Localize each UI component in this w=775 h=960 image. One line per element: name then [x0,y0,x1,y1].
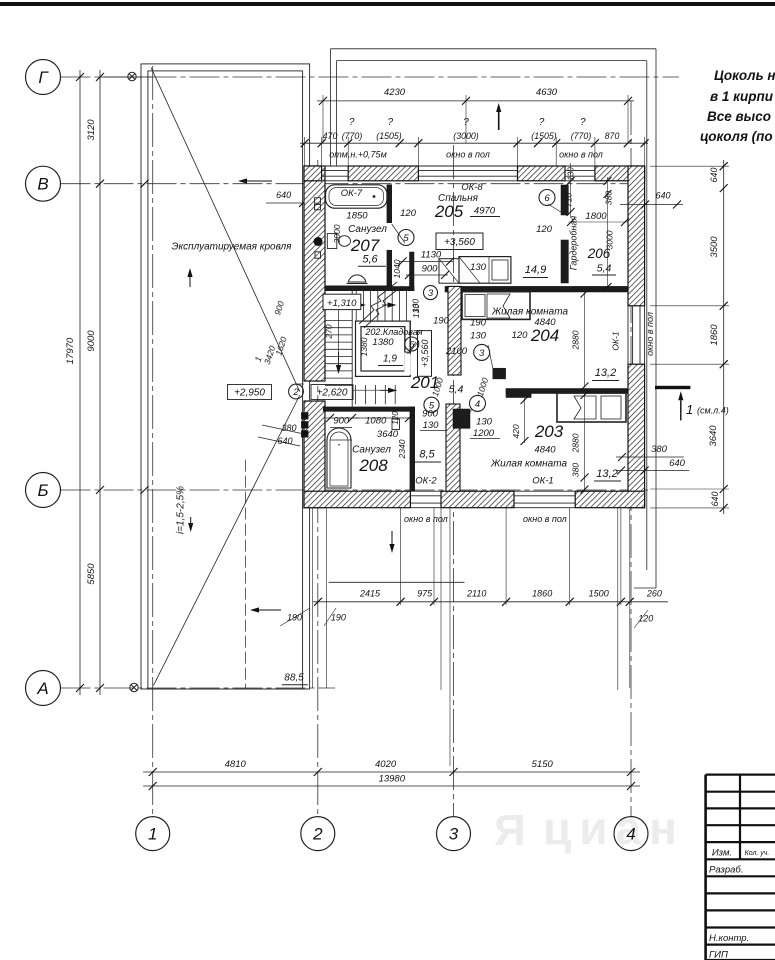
svg-text:окно в пол: окно в пол [559,150,603,160]
axis line Г horizontal [61,76,680,78]
top dim chain 2 [300,142,648,144]
svg-text:ОК-8: ОК-8 [461,182,483,193]
dim line 1800 [568,221,628,223]
window ОК-7 top right [565,165,595,167]
bottom dim chain below building [313,601,668,603]
axis line 1 vertical [152,66,154,816]
stairs top flight treads [355,287,357,321]
bed room 203 [557,393,626,422]
svg-text:отм.н.+0,75м: отм.н.+0,75м [329,150,386,160]
dim line 2880/380 room 203 [584,394,586,491]
svg-text:1380: 1380 [372,337,394,348]
arrow down below building [391,531,393,544]
axis circle Б [26,473,61,508]
dim line 2880 room 204 [584,293,586,388]
sheet border top [0,2,775,6]
exterior wall top seg3 [518,166,566,181]
svg-text:470: 470 [323,131,338,141]
svg-text:190: 190 [470,318,487,329]
svg-text:Я: Я [494,806,526,855]
svg-text:(770): (770) [571,131,592,141]
svg-text:710: 710 [564,193,574,207]
svg-text:420: 420 [511,424,521,438]
svg-text:Все высо: Все высо [707,109,771,124]
window top 770 [322,165,349,167]
right dim chain [723,160,725,514]
svg-text:17970: 17970 [65,337,76,364]
svg-text:2340: 2340 [397,439,407,459]
svg-text:Санузел: Санузел [352,445,391,456]
elevation +1,310 [323,294,361,309]
door circle 2 [289,384,304,399]
exterior wall right lower [628,364,645,508]
svg-text:4230: 4230 [384,87,406,98]
roof outline [331,48,657,50]
left dim line 17970 [79,70,81,695]
svg-text:4: 4 [475,399,480,410]
terrace ridge dashed line [244,460,246,689]
svg-text:5: 5 [403,233,409,244]
left dim line segments [99,70,101,695]
wall 206 left lower [561,240,568,283]
svg-text:640: 640 [276,190,291,200]
svg-text:Б: Б [37,481,48,500]
svg-text:ОК-2: ОК-2 [415,476,437,487]
axis line В horizontal [61,183,644,185]
svg-text:Жилая комната: Жилая комната [491,307,568,318]
wall 204/203 stub [506,389,531,398]
svg-text:окно в пол: окно в пол [404,514,448,524]
bottom dim chain axes [143,771,640,773]
section mark 1 [655,386,690,389]
washbasin room 207 [348,275,366,282]
svg-text:окно в пол: окно в пол [645,312,655,356]
door swing terrace [296,383,304,385]
svg-text:2: 2 [312,825,323,844]
svg-text:4810: 4810 [225,759,247,770]
svg-text:270: 270 [324,324,334,339]
door circle 5 room 201 [424,397,439,412]
stairs walk line left flight [338,305,340,360]
door circle 4 [470,395,486,411]
svg-text:Цоколь н: Цоколь н [714,68,775,83]
svg-text:380: 380 [571,463,581,477]
svg-text:+2,620: +2,620 [317,388,348,399]
svg-text:3: 3 [428,288,434,299]
arrow down terrace [190,517,192,523]
svg-text:14,9: 14,9 [525,264,546,276]
svg-text:207: 207 [350,236,380,255]
axis circle А [26,671,61,706]
svg-text:в 1 кирпи: в 1 кирпи [710,89,774,104]
svg-text:?: ? [580,117,586,128]
svg-text:2415: 2415 [359,589,381,599]
storage room 202 walls [356,321,411,376]
door swing 202 [410,341,419,352]
svg-text:1,9: 1,9 [383,354,397,365]
svg-text:ОК-7: ОК-7 [341,188,363,199]
svg-text:+3,560: +3,560 [420,340,430,368]
svg-text:3120: 3120 [86,119,97,141]
svg-text:Н.контр.: Н.контр. [709,933,749,944]
svg-text:ГИП: ГИП [709,950,728,960]
wall 206 left upper [561,185,568,215]
svg-text:А: А [36,679,48,698]
axis circle 4 [614,817,648,851]
svg-text:Изм.: Изм. [712,848,732,859]
exterior wall top seg1 [304,166,322,181]
anchor mark top-left [128,72,136,80]
svg-text:Жилая комната: Жилая комната [490,459,567,470]
arrow left below building [259,609,281,611]
svg-text:i=1,5-2,5%: i=1,5-2,5% [175,486,186,534]
svg-text:120: 120 [512,330,529,341]
svg-text:Гардеробная: Гардеробная [569,216,579,271]
door swing 204 [488,345,493,368]
svg-text:13980: 13980 [379,774,406,785]
wall 208 top [323,407,415,412]
elevation +2,620 [311,385,353,400]
wall stub door 203 [453,409,470,428]
exterior wall bottom seg1 [304,491,410,508]
closet room 205 [439,259,459,284]
svg-text:окно в пол: окно в пол [523,514,567,524]
door swing 203 [460,409,472,428]
svg-text:5850: 5850 [86,563,97,585]
svg-text:1: 1 [148,825,157,844]
arrow up terrace [189,277,191,287]
bathtub room 207 [326,185,387,208]
svg-text:900: 900 [422,409,439,420]
svg-text:1: 1 [686,402,693,417]
terrace diagonal 1 [151,67,300,391]
bed room 204 [462,292,530,320]
svg-text:9000: 9000 [86,330,97,352]
svg-text:190: 190 [331,613,346,623]
svg-text:(770): (770) [342,131,363,141]
elevation +3,560 room205 [436,233,483,250]
wall-mounted squares room 207 [315,198,321,204]
svg-text:Эксплуатируемая кровля: Эксплуатируемая кровля [172,242,293,253]
exterior wall top seg2 [348,166,418,181]
svg-text:(1505): (1505) [376,131,401,141]
axis line А horizontal [61,687,336,689]
door circle 3 stairs [424,286,438,300]
svg-text:3: 3 [479,348,485,359]
stairs lower flight treads [355,385,357,404]
anchor mark bottom-left [130,683,138,691]
dim line 206 vertical [607,177,609,289]
svg-text:?: ? [539,117,545,128]
svg-text:1850: 1850 [346,211,368,222]
axis line 4 vertical [630,101,632,816]
svg-text:(1505): (1505) [531,131,556,141]
door circle 6 storage [405,337,419,351]
svg-text:640: 640 [710,492,720,507]
bathtub room 208 [327,428,351,488]
svg-text:6: 6 [544,193,550,204]
svg-text:5,4: 5,4 [449,384,464,396]
door swing 206 [548,204,564,214]
svg-text:В: В [37,175,48,194]
svg-text:?: ? [388,117,394,128]
window ОК-1 bottom [514,490,575,492]
svg-text:130: 130 [470,331,487,342]
dim line 710 [570,163,572,218]
svg-text:380: 380 [651,444,668,455]
svg-text:130: 130 [470,262,487,273]
svg-text:380: 380 [281,423,296,433]
svg-text:5,6: 5,6 [362,254,378,266]
exterior wall left lower [304,401,325,508]
wall stub door 204 [493,368,506,379]
svg-text:+1,310: +1,310 [327,298,357,309]
svg-text:цоколя (по: цоколя (по [700,129,773,144]
svg-text:8,5: 8,5 [419,449,435,461]
svg-text:(см.л.4): (см.л.4) [697,406,729,416]
axis circle Г [26,60,61,95]
svg-text:1380: 1380 [359,337,369,356]
window ОК-2 bottom [410,490,441,492]
stairs cut line zigzag [359,282,397,324]
stairs down arrow [338,352,340,365]
svg-text:Кол. уч.: Кол. уч. [745,850,770,857]
exterior wall bottom seg2 [441,491,514,508]
svg-text:Разраб.: Разраб. [709,865,743,876]
svg-text:640: 640 [709,168,719,183]
exterior wall top seg4 [595,166,645,181]
svg-text:120: 120 [536,224,553,235]
wall 204/203 [506,389,628,394]
svg-text:204: 204 [530,326,559,345]
svg-text:3500: 3500 [709,236,720,258]
wall stairhall right [410,252,415,291]
svg-text:3640: 3640 [708,425,719,447]
svg-text:130: 130 [411,299,421,313]
svg-text:870: 870 [605,131,620,141]
svg-text:3000: 3000 [332,224,342,243]
door circle 6 room 206 [539,190,555,206]
svg-text:130: 130 [423,420,440,431]
svg-text:5,4: 5,4 [597,263,612,275]
top dim chain 1 [317,100,634,102]
svg-text:975: 975 [417,589,433,599]
svg-text:5150: 5150 [532,759,554,770]
svg-text:208: 208 [358,456,388,475]
svg-text:120: 120 [638,614,653,624]
svg-text:1800: 1800 [585,211,607,222]
svg-text:4630: 4630 [536,87,558,98]
svg-text:205: 205 [434,202,464,221]
axis circle 3 [437,817,471,851]
wall corridor/203 hatched [446,404,460,491]
svg-text:13,2: 13,2 [596,468,617,480]
svg-text:1040: 1040 [392,259,402,278]
svg-text:202.Кладовая: 202.Кладовая [364,327,422,337]
axis circle 1 [136,817,170,851]
svg-text:1860: 1860 [532,589,552,599]
svg-text:3000: 3000 [605,230,615,249]
elevation +2,950 [228,385,272,400]
squares room 208 wall [302,413,309,420]
svg-text:120: 120 [400,208,417,219]
axis circle В [26,166,61,201]
svg-text:ОК-1: ОК-1 [532,476,553,487]
svg-text:130: 130 [567,167,576,181]
svg-text:2880: 2880 [571,433,581,453]
terrace diagonal 2 [153,395,299,686]
wall 205/204 [445,286,628,292]
svg-text:640: 640 [669,458,686,469]
svg-text:130: 130 [476,417,493,428]
svg-text:640: 640 [655,191,670,201]
svg-text:4840: 4840 [534,445,556,456]
axis line 3 vertical [453,145,455,816]
door swing storage [408,342,417,354]
svg-text:?: ? [349,117,355,128]
axis circle 2 [301,817,335,851]
wall 201/204 hatched [448,286,461,375]
svg-text:260: 260 [646,589,662,599]
svg-text:1200: 1200 [473,428,495,439]
arrow left axis В [247,180,272,182]
svg-text:1500: 1500 [589,589,609,599]
wall bath207 right upper [387,185,392,223]
svg-text:203: 203 [534,422,564,441]
wall 208 right [410,407,415,491]
svg-text:1130: 1130 [421,250,442,261]
svg-text:6: 6 [409,340,415,351]
wall bath207 bottom [325,286,392,291]
window ОК-8 top [418,165,517,167]
svg-text:640: 640 [277,436,292,446]
wall bath207 right lower [387,250,392,289]
svg-text:4020: 4020 [375,759,397,770]
svg-text:+3,560: +3,560 [444,237,475,248]
exterior wall bottom seg3 [575,491,644,508]
svg-text:3640: 3640 [377,429,399,440]
svg-text:900: 900 [333,416,350,427]
extension lines below building [400,508,402,605]
door circle 5 room 207 [398,230,414,246]
svg-text:+2,950: +2,950 [234,388,265,399]
svg-text:190: 190 [433,316,450,327]
svg-text:1080: 1080 [365,416,387,427]
exterior wall right upper [628,166,645,306]
axis line 2 vertical [317,160,319,816]
wall stairhall top [392,287,414,291]
svg-text:окно в пол: окно в пол [446,150,490,160]
stairs left flight treads [325,320,352,322]
stairs walk arrows [352,304,357,306]
terrace outline inner [148,71,303,689]
terrace outline outer [141,64,310,689]
svg-text:2110: 2110 [466,589,486,599]
svg-text:1860: 1860 [709,324,720,346]
north arrow [498,112,500,130]
window ОК-1 right [627,306,629,364]
svg-text:4: 4 [626,825,635,844]
dim line 420 [524,398,526,443]
svg-text:13,2: 13,2 [595,367,616,379]
svg-text:2100: 2100 [445,346,468,357]
svg-text:3: 3 [449,825,459,844]
svg-text:2880: 2880 [571,330,581,350]
svg-text:88,5: 88,5 [284,673,304,684]
toilet room 207 [327,234,337,249]
svg-text:ОК-1: ОК-1 [611,331,621,350]
axis line Б horizontal [61,489,649,491]
elevation +3,560 vertical [418,331,432,377]
exterior wall left upper [304,166,325,381]
svg-text:циан: циан [543,802,685,854]
stairwell edge line [351,287,353,407]
svg-text:2: 2 [292,387,299,398]
svg-text:Санузел: Санузел [348,224,387,235]
svg-text:900: 900 [422,264,439,275]
door circle 3 room 204 [474,344,490,360]
svg-text:4970: 4970 [474,206,496,217]
title block [706,773,775,775]
door swing 207 [392,224,405,243]
